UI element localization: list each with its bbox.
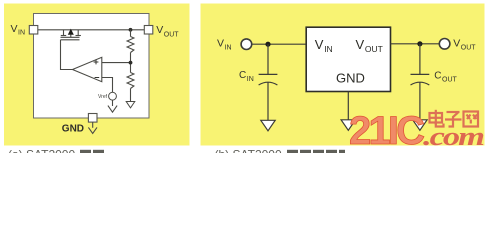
wire CIN to ground xyxy=(267,82,269,120)
panel (a) background xyxy=(4,4,190,146)
transistor Q1 arrow xyxy=(68,29,74,35)
watermark CJK zi glyph xyxy=(445,112,462,127)
transistor Q1 pass PMOS xyxy=(61,30,81,40)
svg-text:OUT: OUT xyxy=(442,76,458,83)
ground CIN xyxy=(261,120,275,131)
wire regulator GND to ground xyxy=(347,92,349,120)
wire junction to CIN xyxy=(267,44,269,74)
watermark CJK wang glyph xyxy=(464,112,479,127)
op-amp U2 error amplifier xyxy=(73,57,102,81)
node input junction xyxy=(265,42,270,47)
caption (a) xyxy=(8,148,104,162)
label COUT xyxy=(434,71,457,84)
pin label VOUT regulator xyxy=(356,37,383,54)
label VIN xyxy=(11,23,26,37)
resistor R1 xyxy=(127,37,134,53)
wire COUT to ground xyxy=(419,82,421,119)
wire VIN to VOUT top rail xyxy=(38,29,145,31)
op-amp minus input mark xyxy=(95,77,100,79)
svg-text:(a) SAT2000: (a) SAT2000 xyxy=(8,148,75,154)
ground GND pin arrow xyxy=(88,122,97,133)
node output junction xyxy=(417,41,422,46)
pin label VIN regulator xyxy=(315,37,333,54)
wire junction to COUT xyxy=(419,44,421,75)
wire VIN terminal to regulator xyxy=(252,43,307,45)
svg-text:V: V xyxy=(11,23,18,35)
terminal GND pin xyxy=(88,114,97,123)
wire gate to op-amp output xyxy=(61,40,73,70)
svg-text:IN: IN xyxy=(225,44,232,51)
ground regulator xyxy=(341,120,355,131)
panel (b) background xyxy=(201,4,485,146)
terminal VIN pin xyxy=(29,26,38,35)
svg-text:OUT: OUT xyxy=(461,44,477,51)
wire top rail to R1 xyxy=(130,30,132,37)
ground COUT xyxy=(413,120,427,131)
voltage reference Vref source xyxy=(109,92,117,100)
ground Vref xyxy=(108,106,117,113)
svg-text:GND: GND xyxy=(336,71,365,86)
capacitor CIN xyxy=(259,74,278,85)
svg-text:OUT: OUT xyxy=(365,44,383,54)
label CIN xyxy=(239,70,254,83)
svg-text:IN: IN xyxy=(18,30,25,37)
op-amp plus input mark xyxy=(94,60,99,65)
svg-text:.com: .com xyxy=(423,122,483,151)
watermark CJK dian glyph xyxy=(430,110,444,127)
svg-text:OUT: OUT xyxy=(164,31,180,38)
IC boundary box U1 xyxy=(34,14,150,119)
terminal VIN input xyxy=(241,39,252,50)
label VOUT output node xyxy=(453,37,476,51)
wire R2 to ground xyxy=(130,89,132,102)
label VIN input node xyxy=(217,37,232,51)
label VOUT xyxy=(156,24,179,38)
svg-text:C: C xyxy=(434,71,441,82)
wire plus input to feedback tap xyxy=(102,62,131,64)
wire minus input to Vref xyxy=(102,78,113,93)
wire regulator output to VOUT terminal xyxy=(391,43,440,45)
ground divider xyxy=(126,102,135,108)
wire Vref to ground xyxy=(112,100,114,106)
regulator U3 body xyxy=(306,27,390,91)
node feedback tap xyxy=(129,61,133,65)
svg-text:V: V xyxy=(156,24,163,36)
svg-text:IN: IN xyxy=(324,44,333,54)
svg-text:21IC: 21IC xyxy=(349,109,425,153)
terminal VOUT output xyxy=(439,39,450,50)
watermark 21IC logo text xyxy=(349,109,425,153)
svg-text:(b) SAT2000: (b) SAT2000 xyxy=(215,148,282,154)
terminal VOUT pin xyxy=(144,26,153,35)
svg-text:C: C xyxy=(239,70,246,81)
resistor R2 xyxy=(127,73,134,89)
svg-text:V: V xyxy=(315,37,324,52)
wire R1 to tap xyxy=(130,53,132,73)
node divider top xyxy=(129,28,133,32)
svg-text:IN: IN xyxy=(247,76,254,83)
svg-text:V: V xyxy=(453,37,460,49)
svg-text:Vref: Vref xyxy=(98,94,108,100)
svg-text:GND: GND xyxy=(62,123,84,134)
svg-text:V: V xyxy=(356,37,365,52)
caption (b) xyxy=(215,148,346,162)
capacitor COUT xyxy=(411,74,430,85)
svg-text:V: V xyxy=(217,37,224,49)
